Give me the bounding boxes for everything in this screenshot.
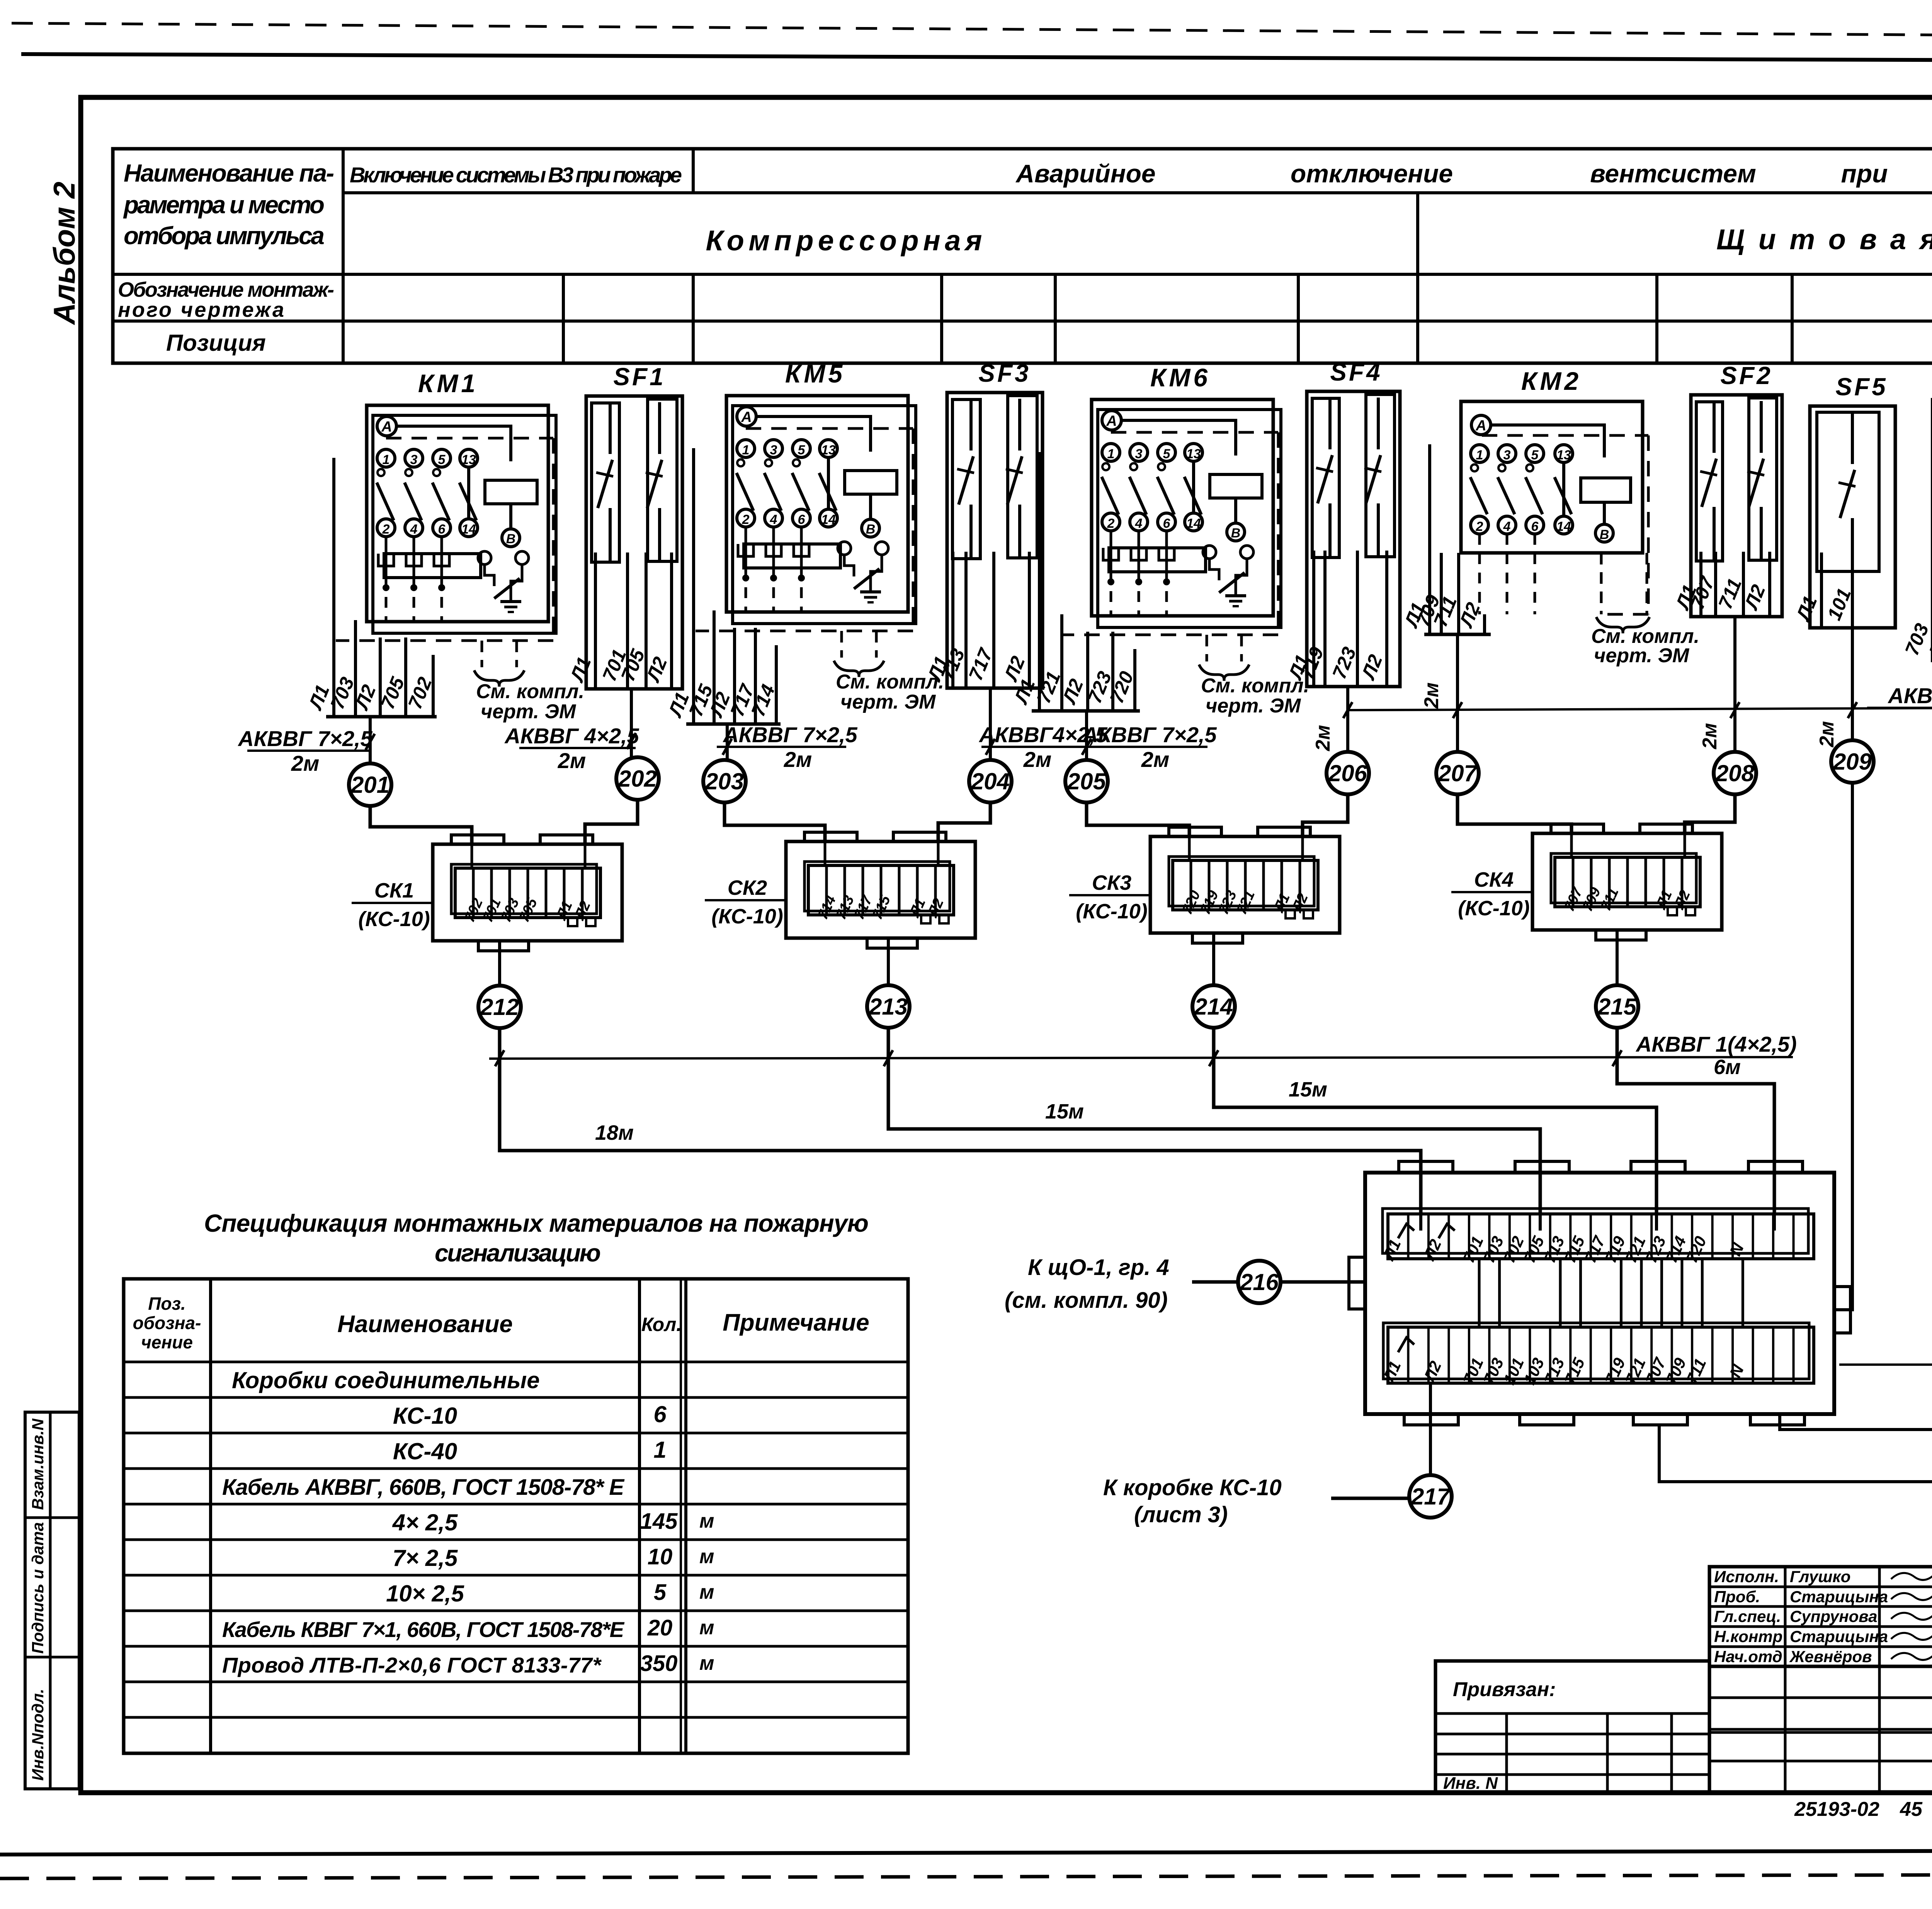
svg-text:209: 209: [1833, 749, 1872, 775]
sheet top perforation dashed line: [12, 23, 1932, 39]
wire 711: [1457, 553, 1460, 634]
junction box СК3 (КС-10): [1069, 827, 1340, 943]
specification table grid: [124, 1279, 908, 1753]
svg-text:145: 145: [640, 1509, 678, 1534]
wire Л1: [951, 552, 954, 688]
svg-text:Наименование па-: Наименование па-: [124, 159, 334, 187]
svg-text:Супрунова: Супрунова: [1790, 1607, 1877, 1625]
leads to assembly drawing of КМ5: [840, 631, 843, 658]
wire from CK1 to node 212: [498, 941, 501, 986]
svg-text:Кол.: Кол.: [641, 1314, 682, 1335]
wire from node 208 to CK4: [1685, 794, 1735, 833]
junction box СК5 (КС40): [1349, 1161, 1932, 1425]
svg-text:20: 20: [647, 1615, 673, 1640]
node 209: [1831, 740, 1874, 783]
thermal overload elements of КМ5: [744, 544, 840, 568]
svg-text:216: 216: [1240, 1269, 1279, 1295]
svg-text:6: 6: [798, 512, 806, 527]
svg-text:АКВВГ 7×2,5: АКВВГ 7×2,5: [1082, 722, 1217, 747]
svg-text:217: 217: [1411, 1484, 1451, 1510]
wire from CK4 to node 215: [1616, 930, 1619, 986]
wire from SF3 to node 204: [989, 688, 992, 760]
svg-text:К коробке КС-10: К коробке КС-10: [1103, 1475, 1282, 1500]
cable run 15м from node 213 to CK5: [888, 1027, 1540, 1214]
contactor КМ6: [1061, 363, 1309, 717]
svg-text:АКВВГ 1(4×2,5): АКВВГ 1(4×2,5): [1635, 1032, 1797, 1056]
svg-text:SF4: SF4: [1330, 358, 1382, 386]
wire from SF5 to node 209: [1851, 628, 1854, 741]
cable run 15м from node 214 to CK5: [1214, 1027, 1656, 1214]
wire 719: [1323, 551, 1327, 687]
svg-text:Жевнёров: Жевнёров: [1789, 1647, 1872, 1666]
svg-text:2: 2: [1476, 519, 1483, 534]
svg-text:СК1: СК1: [374, 879, 414, 902]
wire 714: [775, 645, 778, 724]
wire from KM5 to node 203: [726, 724, 729, 760]
svg-text:SF2: SF2: [1720, 362, 1772, 389]
svg-text:213: 213: [869, 994, 908, 1020]
cable line АКВВГ 4х2,5 between vent blocks: [1348, 708, 1932, 710]
svg-text:черт. ЭМ: черт. ЭМ: [1594, 644, 1690, 667]
svg-text:Аварийное: Аварийное: [1015, 159, 1155, 188]
svg-text:214: 214: [1194, 994, 1233, 1020]
wire 707: [1714, 552, 1717, 617]
wire from node 204 to CK2: [938, 802, 990, 841]
leads to assembly drawing of КМ6: [1206, 635, 1208, 661]
wire from node 209 to СК5: [1834, 782, 1852, 1310]
svg-text:6: 6: [1163, 516, 1171, 531]
wire 705: [645, 552, 648, 689]
side stamp boxes: [25, 1412, 79, 1789]
svg-text:Н.контр: Н.контр: [1714, 1627, 1782, 1646]
wire bundle bottom bus: [1816, 626, 1878, 630]
node 207: [1436, 752, 1479, 794]
wire from СК5 to node 217: [1429, 1383, 1432, 1476]
wire from node 207 to CK4: [1458, 794, 1571, 833]
wire from node 201 to CK1: [370, 806, 472, 844]
svg-text:1: 1: [383, 452, 390, 467]
svg-text:чение: чение: [141, 1332, 193, 1352]
node 217: [1409, 1475, 1452, 1518]
svg-text:2м: 2м: [1141, 747, 1170, 772]
wire Л2: [1028, 552, 1031, 688]
node 206: [1327, 752, 1369, 794]
svg-text:207: 207: [1438, 760, 1478, 786]
wire from node 203 to CK2: [724, 802, 825, 841]
svg-text:2м: 2м: [784, 747, 812, 772]
svg-text:В: В: [1231, 526, 1241, 541]
wire from CK3 to node 214: [1212, 933, 1215, 986]
wire Л1: [594, 552, 597, 689]
svg-text:АКВВГ 7×2,5: АКВВГ 7×2,5: [722, 722, 857, 747]
svg-text:2м: 2м: [558, 748, 586, 773]
svg-text:13: 13: [821, 443, 836, 457]
svg-text:Кабель АКВВГ, 660В, ГОСТ 1508: Кабель АКВВГ, 660В, ГОСТ 1508-78* Е: [222, 1475, 625, 1500]
svg-text:14: 14: [1186, 516, 1201, 531]
svg-text:14: 14: [461, 522, 476, 537]
wire 701: [626, 552, 629, 689]
svg-text:СК3: СК3: [1092, 871, 1131, 894]
svg-text:В: В: [1600, 527, 1609, 542]
svg-text:ного чертежа: ного чертежа: [118, 298, 284, 321]
wire from SF4 to node 206: [1346, 687, 1349, 752]
enclosure dashed boundary of КМ1: [386, 437, 553, 440]
svg-text:КМ1: КМ1: [418, 369, 478, 398]
svg-text:1: 1: [742, 443, 750, 457]
svg-text:215: 215: [1597, 994, 1637, 1020]
wire Л2: [1385, 551, 1388, 687]
circuit breaker SF1: [586, 363, 682, 689]
svg-text:13: 13: [1556, 448, 1571, 462]
wire 723: [1111, 632, 1114, 711]
svg-text:3: 3: [770, 443, 777, 457]
bent wire marks in СК5: [1398, 1224, 1414, 1238]
svg-text:350: 350: [640, 1651, 678, 1676]
svg-text:раметра и место: раметра и место: [123, 191, 325, 219]
svg-text:См. компл.: См. компл.: [476, 680, 584, 703]
svg-text:Включение системы В3 при пожар: Включение системы В3 при пожаре: [350, 163, 682, 187]
sheet bottom perforation dashed line: [0, 1874, 1932, 1878]
svg-text:Нач.отд: Нач.отд: [1714, 1647, 1782, 1666]
svg-text:6: 6: [1531, 519, 1539, 534]
thermal overload elements of КМ6: [1109, 548, 1206, 572]
svg-text:КМ5: КМ5: [785, 359, 845, 388]
svg-text:2: 2: [742, 512, 750, 527]
wire Л1: [1038, 452, 1041, 711]
wire 723: [1356, 551, 1359, 687]
svg-text:45: 45: [1900, 1798, 1923, 1821]
svg-text:Наименование: Наименование: [337, 1311, 513, 1338]
svg-text:Альбом 2: Альбом 2: [47, 182, 81, 325]
thermal overload elements of КМ1: [384, 554, 481, 578]
svg-text:СК4: СК4: [1474, 868, 1514, 891]
wire 717: [754, 628, 757, 724]
wire Л1: [692, 448, 695, 724]
svg-text:4: 4: [770, 512, 777, 527]
svg-text:АКВВГ 4×2,5: АКВВГ 4×2,5: [1887, 683, 1932, 708]
svg-text:2м: 2м: [1312, 725, 1334, 751]
svg-text:2м: 2м: [1420, 682, 1443, 709]
wire 703: [354, 620, 357, 717]
svg-text:6м: 6м: [1714, 1056, 1741, 1079]
header table row line under room row: [113, 273, 1932, 276]
wire from KM1 to node 201: [369, 717, 372, 764]
svg-text:13: 13: [1186, 447, 1201, 461]
wire 711: [1742, 552, 1745, 617]
svg-text:отключение: отключение: [1291, 159, 1453, 188]
svg-text:3: 3: [410, 452, 418, 467]
wire bundle bottom bus: [590, 687, 677, 691]
wire 702: [432, 655, 435, 717]
header table column dividers: [342, 149, 345, 363]
node 213: [867, 985, 910, 1028]
svg-text:В: В: [866, 522, 876, 537]
node 201: [349, 763, 391, 806]
svg-text:4: 4: [1135, 516, 1143, 531]
wire Л1: [1820, 552, 1823, 628]
svg-text:м: м: [699, 1617, 714, 1639]
svg-text:5: 5: [438, 452, 446, 467]
wire Л1: [1699, 552, 1702, 617]
wire Л2: [1483, 614, 1486, 634]
svg-text:25193-02: 25193-02: [1794, 1798, 1879, 1821]
svg-text:Примечание: Примечание: [723, 1309, 869, 1336]
svg-text:АКВВГ 4×2,5: АКВВГ 4×2,5: [504, 724, 639, 748]
svg-text:203: 203: [705, 768, 744, 794]
wire 720: [1133, 649, 1136, 711]
wire from node 211 to СК5: [1659, 792, 1932, 1482]
enclosure dashed boundary of КМ5: [746, 427, 913, 430]
svg-text:1: 1: [1107, 447, 1115, 461]
svg-text:(КС-10): (КС-10): [1076, 900, 1148, 923]
svg-text:10× 2,5: 10× 2,5: [386, 1581, 464, 1606]
wire Л2: [379, 637, 382, 717]
svg-text:сигнализацию: сигнализацию: [435, 1239, 601, 1267]
svg-text:212: 212: [480, 994, 519, 1020]
svg-text:Глушко: Глушко: [1790, 1567, 1850, 1586]
svg-text:Старицына: Старицына: [1790, 1627, 1888, 1646]
cable run 18м from node 212 to CK5: [500, 1028, 1421, 1214]
svg-text:КС-40: КС-40: [393, 1438, 457, 1464]
svg-text:1: 1: [653, 1437, 666, 1463]
node 202: [616, 757, 659, 800]
wire 715: [713, 610, 716, 724]
sheet bottom edge solid line: [0, 1850, 1932, 1855]
svg-text:2м: 2м: [1023, 747, 1052, 772]
svg-text:А: А: [1106, 413, 1117, 429]
svg-text:(лист 3): (лист 3): [1134, 1502, 1228, 1527]
node 216: [1238, 1261, 1281, 1303]
svg-text:4: 4: [410, 522, 418, 537]
node 205: [1065, 760, 1108, 802]
svg-text:м: м: [699, 1652, 714, 1674]
svg-text:5: 5: [654, 1580, 667, 1605]
svg-text:10: 10: [648, 1544, 673, 1569]
svg-text:SF5: SF5: [1835, 373, 1888, 401]
svg-text:2м: 2м: [1699, 723, 1721, 749]
wire from node 210 to СК5: [1780, 792, 1932, 1430]
ground symbol of КМ5: [860, 590, 881, 593]
svg-text:(КС-10): (КС-10): [358, 908, 430, 931]
wire from node 202 to CK1: [585, 799, 638, 844]
circuit breaker SF4: [1307, 358, 1400, 687]
node 204: [969, 760, 1012, 802]
svg-text:Старицына: Старицына: [1790, 1588, 1888, 1606]
wire Л2: [1768, 552, 1771, 617]
svg-text:черт. ЭМ: черт. ЭМ: [840, 691, 936, 713]
leads to assembly drawing of КМ1: [481, 641, 483, 667]
svg-text:КМ6: КМ6: [1150, 363, 1211, 392]
svg-text:2: 2: [1107, 516, 1115, 531]
wire Л2: [1086, 632, 1089, 711]
node 203: [703, 760, 746, 802]
svg-text:204: 204: [971, 768, 1010, 794]
wire bundle bottom bus: [686, 722, 781, 726]
svg-text:Исполн.: Исполн.: [1714, 1567, 1779, 1586]
wire bundle bottom bus: [1310, 685, 1393, 688]
wire Л1: [1428, 444, 1431, 634]
svg-text:4: 4: [1503, 519, 1511, 534]
wire 705: [404, 637, 407, 717]
svg-text:(см. компл. 90): (см. компл. 90): [1005, 1288, 1168, 1313]
svg-text:2: 2: [382, 522, 390, 537]
wire 721: [1060, 614, 1063, 711]
svg-text:4× 2,5: 4× 2,5: [392, 1510, 458, 1535]
svg-text:м: м: [699, 1545, 714, 1568]
svg-text:Проб.: Проб.: [1714, 1588, 1760, 1606]
svg-text:См. компл.: См. компл.: [1201, 675, 1309, 697]
svg-text:206: 206: [1328, 760, 1367, 786]
svg-text:2м: 2м: [291, 751, 320, 775]
svg-text:208: 208: [1715, 760, 1755, 786]
wire to node 216: [1192, 1280, 1238, 1284]
wire from node 205 to CK3: [1087, 802, 1189, 836]
wire Л1: [332, 458, 335, 717]
svg-text:А: А: [741, 409, 752, 425]
svg-text:Кабель КВВГ 7×1, 660В, ГОСТ: Кабель КВВГ 7×1, 660В, ГОСТ 1508-78*Е: [222, 1617, 625, 1642]
cable run 6м from node 215 to CK5: [1617, 1027, 1774, 1214]
title block left columns: [1784, 1666, 1787, 1793]
svg-text:Провод ЛТВ-П-2×0,6 ГОСТ 8133-7: Провод ЛТВ-П-2×0,6 ГОСТ 8133-77*: [222, 1653, 602, 1677]
ground symbol of КМ6: [1225, 594, 1246, 597]
enclosure dashed boundary of КМ6: [1111, 431, 1278, 434]
svg-text:К щО-1, гр. 4: К щО-1, гр. 4: [1028, 1255, 1169, 1280]
wire bundle bottom bus: [1424, 633, 1491, 636]
wire from KM2 to node 207: [1456, 634, 1459, 752]
junction box СК1 (КС-10): [352, 835, 622, 951]
node 214: [1192, 985, 1235, 1028]
svg-text:СК2: СК2: [728, 876, 767, 899]
svg-text:5: 5: [1163, 447, 1171, 461]
internal wires of СК5: [1478, 1259, 1481, 1327]
svg-text:Привязан:: Привязан:: [1453, 1678, 1556, 1701]
contactor КМ1: [336, 369, 584, 723]
cable dimension line АКВВГ 1(4х2,5): [489, 1057, 1793, 1059]
circuit breaker SF2: [1691, 362, 1782, 617]
svg-text:отбора импульса: отбора импульса: [124, 222, 325, 250]
title block main area: [1709, 1666, 1932, 1793]
svg-text:(КС-10): (КС-10): [711, 905, 783, 928]
wire Л2: [733, 628, 736, 724]
svg-text:18м: 18м: [595, 1121, 634, 1144]
wire 709: [1440, 553, 1443, 634]
svg-text:205: 205: [1067, 768, 1107, 794]
junction box СК2 (КС-10): [705, 832, 975, 948]
svg-text:Инв. N: Инв. N: [1443, 1774, 1498, 1793]
wire from CK2 to node 213: [887, 938, 890, 986]
svg-text:15м: 15м: [1045, 1100, 1084, 1123]
svg-text:3: 3: [1503, 448, 1511, 462]
svg-text:6: 6: [653, 1401, 667, 1427]
svg-text:SF1: SF1: [613, 363, 665, 391]
svg-text:КМ2: КМ2: [1521, 367, 1582, 395]
svg-text:SF3: SF3: [978, 359, 1031, 387]
contactor КМ2: [1461, 367, 1699, 667]
circuit breaker SF5: [1810, 373, 1895, 628]
svg-text:Позиция: Позиция: [166, 330, 266, 356]
svg-text:Подпись и дата: Подпись и дата: [29, 1522, 47, 1654]
sheet top edge solid line: [21, 54, 1932, 62]
title block signature table: [1709, 1567, 1932, 1666]
svg-text:1: 1: [1476, 448, 1483, 462]
wire bundle bottom bus: [949, 687, 1039, 690]
wire bundle bottom bus: [326, 715, 437, 719]
wire Л2: [670, 552, 673, 689]
svg-text:13: 13: [461, 452, 476, 467]
wire from node 216 into СК5: [1280, 1280, 1365, 1284]
wire from SF1 to node 202: [630, 689, 633, 758]
svg-text:7× 2,5: 7× 2,5: [393, 1545, 458, 1571]
wire 713: [964, 552, 968, 688]
svg-text:Коробки соединительные: Коробки соединительные: [232, 1367, 540, 1393]
svg-text:2м: 2м: [1816, 721, 1838, 747]
wire from node 206 to CK3: [1303, 794, 1348, 836]
svg-text:В: В: [506, 532, 516, 546]
contactor КМ5: [696, 359, 944, 713]
svg-text:Инв.Nподл.: Инв.Nподл.: [29, 1689, 47, 1781]
header table row line under designation row: [113, 320, 1932, 323]
header table row line under first header row: [343, 191, 1932, 194]
svg-text:обозна-: обозна-: [133, 1313, 201, 1333]
svg-text:м: м: [699, 1581, 714, 1603]
svg-text:КС-10: КС-10: [393, 1403, 457, 1429]
svg-text:5: 5: [1531, 448, 1539, 462]
leads to assembly drawing of КМ2: [1600, 553, 1603, 614]
svg-text:202: 202: [618, 766, 657, 792]
svg-text:А: А: [381, 419, 392, 435]
wire 717: [992, 552, 995, 688]
circuit breaker SF3: [947, 359, 1043, 688]
header table outer border: [113, 149, 1932, 363]
wire bundle bottom bus: [1032, 709, 1140, 713]
svg-text:Поз.: Поз.: [148, 1294, 185, 1314]
enclosure dashed boundary of КМ2: [1482, 434, 1648, 437]
node 212: [478, 986, 521, 1028]
ground symbol of КМ1: [500, 600, 521, 603]
svg-text:Спецификация монтажных матер: Спецификация монтажных материалов на пож…: [204, 1209, 869, 1237]
node 215: [1596, 985, 1638, 1028]
svg-text:черт. ЭМ: черт. ЭМ: [481, 700, 577, 723]
svg-text:3: 3: [1135, 447, 1143, 461]
svg-text:14: 14: [1556, 519, 1571, 534]
svg-text:15м: 15м: [1289, 1078, 1327, 1101]
svg-text:м: м: [699, 1510, 714, 1532]
wire 101: [1851, 552, 1854, 628]
svg-text:при: при: [1841, 159, 1888, 188]
svg-text:черт. ЭМ: черт. ЭМ: [1206, 695, 1301, 717]
wire inside CK1 to terminals: [471, 835, 473, 868]
wire Л1: [1312, 551, 1315, 687]
svg-text:Гл.спец.: Гл.спец.: [1714, 1607, 1781, 1625]
svg-text:5: 5: [798, 443, 806, 457]
svg-text:Обозначение монтаж-: Обозначение монтаж-: [118, 278, 334, 301]
wire bundle bottom bus: [1696, 615, 1777, 619]
svg-text:14: 14: [821, 512, 836, 527]
svg-text:АКВВГ 7×2,5: АКВВГ 7×2,5: [237, 726, 372, 751]
svg-text:201: 201: [350, 772, 389, 798]
svg-text:вентсистем: вентсистем: [1590, 159, 1756, 188]
node 208: [1714, 752, 1756, 794]
binding box Привязан: [1435, 1661, 1709, 1793]
svg-text:(КС-10): (КС-10): [1458, 897, 1530, 920]
wire from SF2 to node 208: [1733, 617, 1736, 752]
junction box СК4 (КС-10): [1451, 824, 1722, 940]
svg-text:А: А: [1475, 418, 1486, 434]
svg-text:6: 6: [438, 522, 446, 537]
svg-text:Взам.инв.N: Взам.инв.N: [29, 1418, 47, 1510]
wire from KM6 to node 205: [1085, 711, 1088, 760]
